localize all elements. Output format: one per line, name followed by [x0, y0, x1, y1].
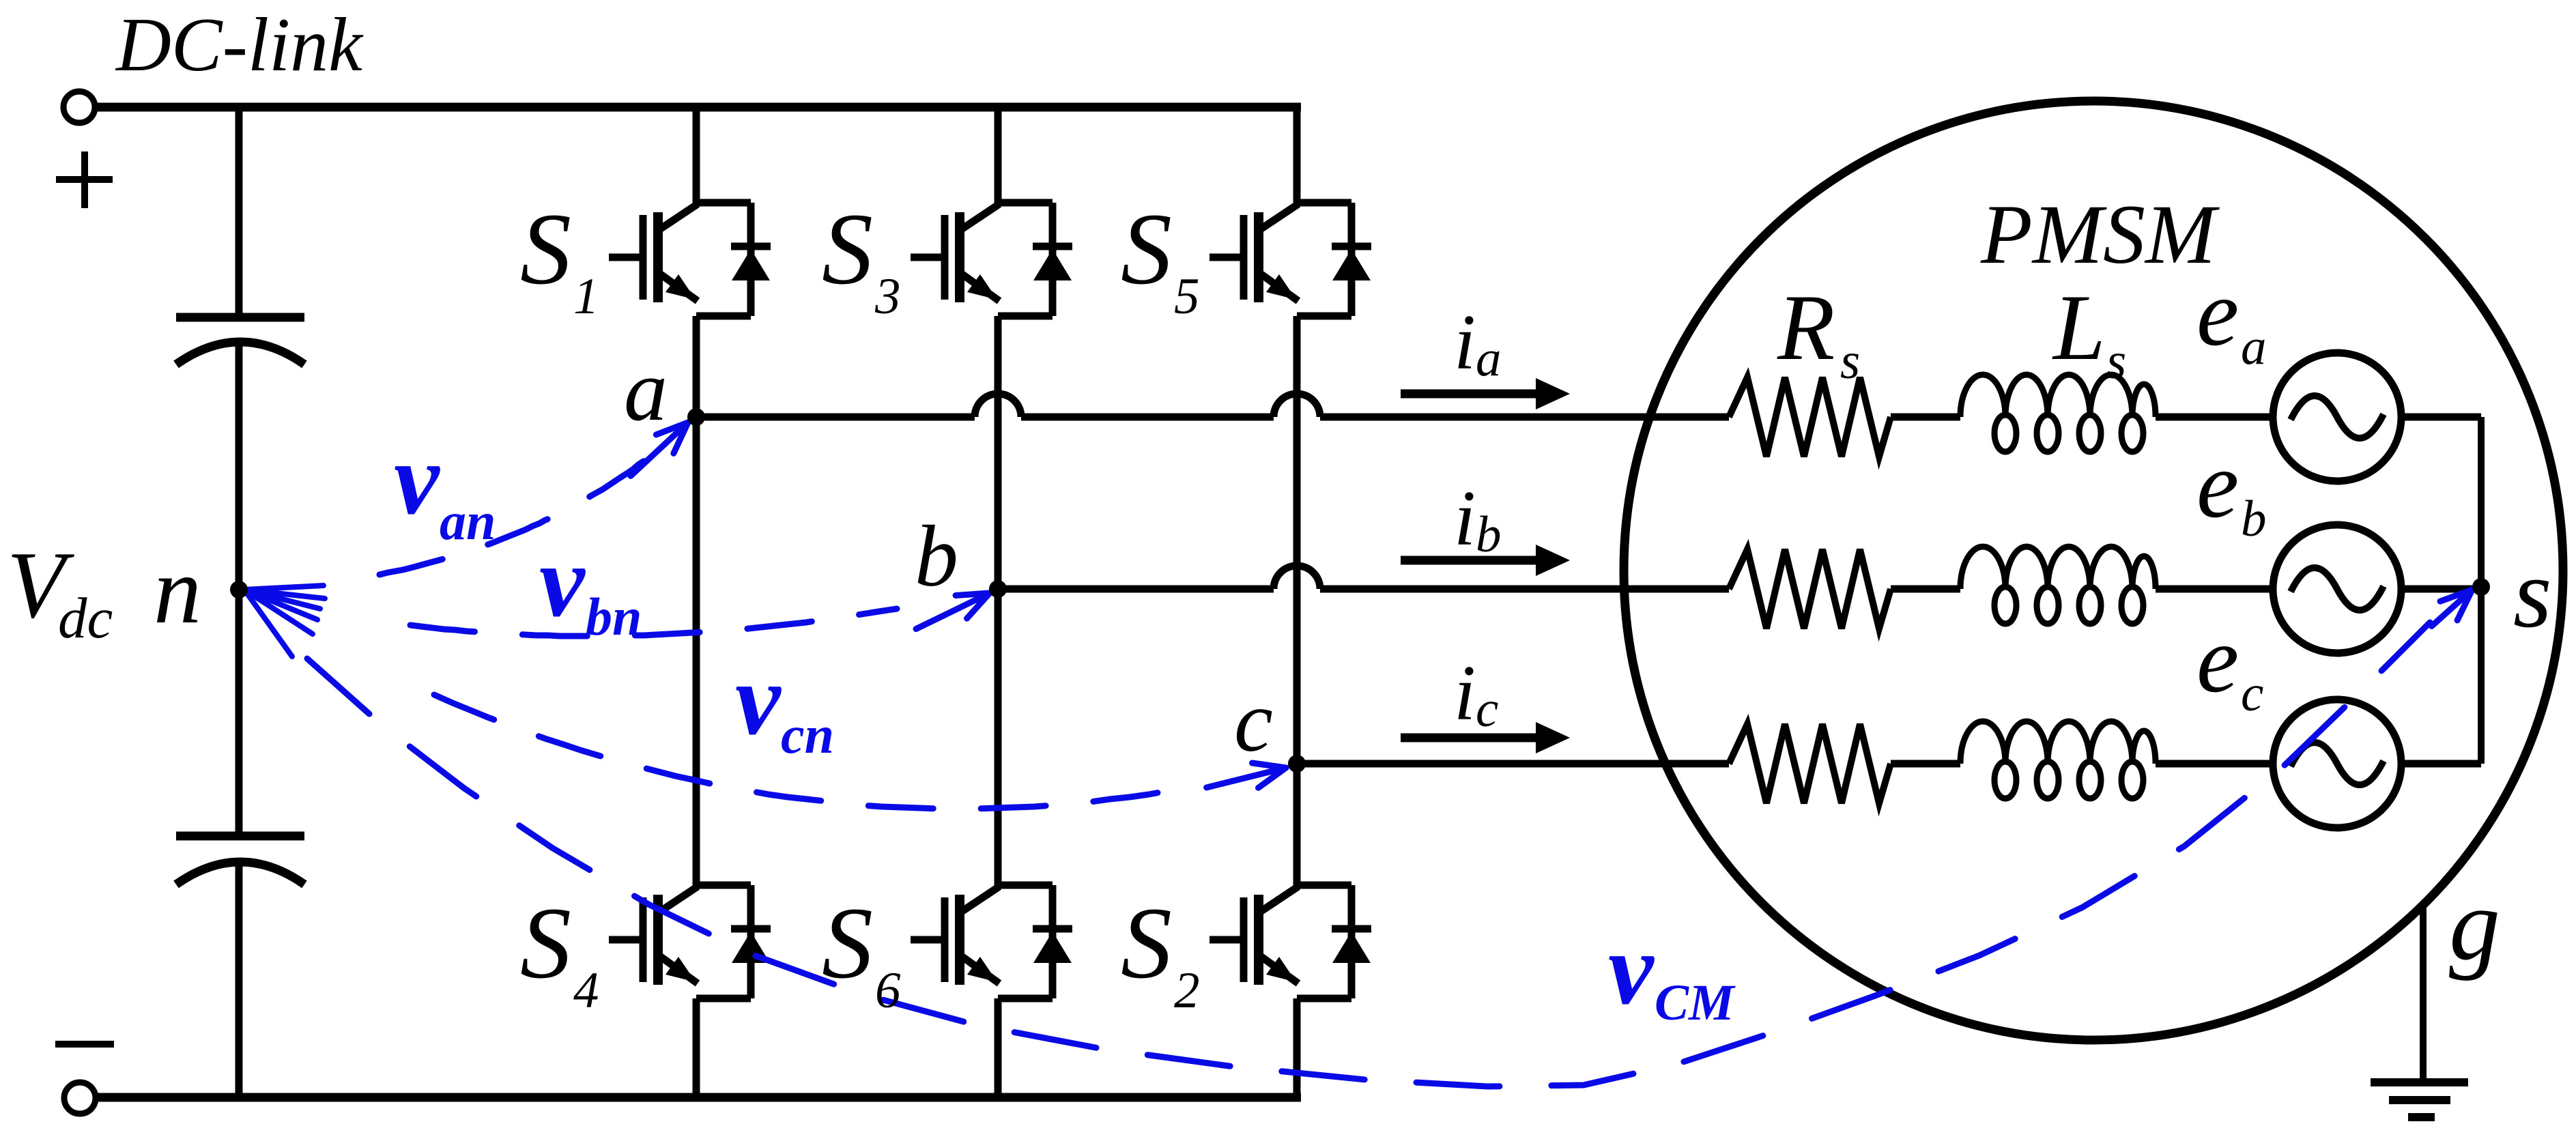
svg-text:S: S [1121, 886, 1172, 1000]
svg-text:a: a [2241, 319, 2267, 375]
svg-text:R: R [1777, 275, 1835, 379]
svg-text:1: 1 [573, 268, 599, 325]
svg-text:i: i [1454, 299, 1476, 386]
svg-text:e: e [2196, 260, 2239, 366]
svg-text:3: 3 [874, 268, 901, 325]
svg-text:c: c [2241, 665, 2263, 722]
svg-text:b: b [2241, 491, 2267, 547]
svg-text:b: b [1476, 506, 1502, 563]
svg-text:PMSM: PMSM [1980, 188, 2220, 281]
svg-text:v: v [735, 643, 782, 756]
svg-text:c: c [1234, 673, 1273, 770]
svg-text:b: b [915, 508, 958, 605]
svg-text:cn: cn [781, 705, 834, 764]
svg-text:g: g [2449, 868, 2500, 981]
svg-text:CM: CM [1655, 975, 1736, 1031]
svg-text:dc: dc [58, 586, 113, 650]
svg-text:S: S [520, 192, 571, 306]
svg-text:an: an [440, 491, 496, 551]
svg-text:c: c [1476, 681, 1498, 738]
svg-text:n: n [154, 538, 201, 644]
svg-text:e: e [2196, 607, 2239, 712]
svg-text:e: e [2196, 432, 2239, 538]
svg-text:i: i [1454, 475, 1476, 562]
svg-text:s: s [2513, 539, 2551, 648]
svg-text:v: v [394, 422, 440, 536]
svg-text:S: S [1121, 192, 1172, 306]
svg-text:a: a [1476, 330, 1502, 387]
svg-text:5: 5 [1174, 268, 1200, 325]
svg-text:4: 4 [573, 962, 599, 1019]
svg-text:S: S [822, 886, 873, 1000]
svg-text:v: v [1608, 912, 1655, 1026]
svg-text:bn: bn [586, 587, 642, 646]
svg-text:S: S [520, 886, 571, 1000]
svg-text:6: 6 [875, 962, 901, 1019]
svg-text:L: L [2052, 275, 2106, 379]
svg-text:S: S [822, 192, 873, 306]
svg-text:DC-link: DC-link [115, 3, 364, 87]
svg-text:i: i [1454, 650, 1476, 736]
svg-text:s: s [2106, 333, 2126, 390]
svg-text:v: v [539, 525, 586, 638]
svg-text:a: a [624, 342, 668, 439]
svg-text:s: s [1840, 333, 1860, 390]
svg-text:2: 2 [1174, 962, 1200, 1019]
